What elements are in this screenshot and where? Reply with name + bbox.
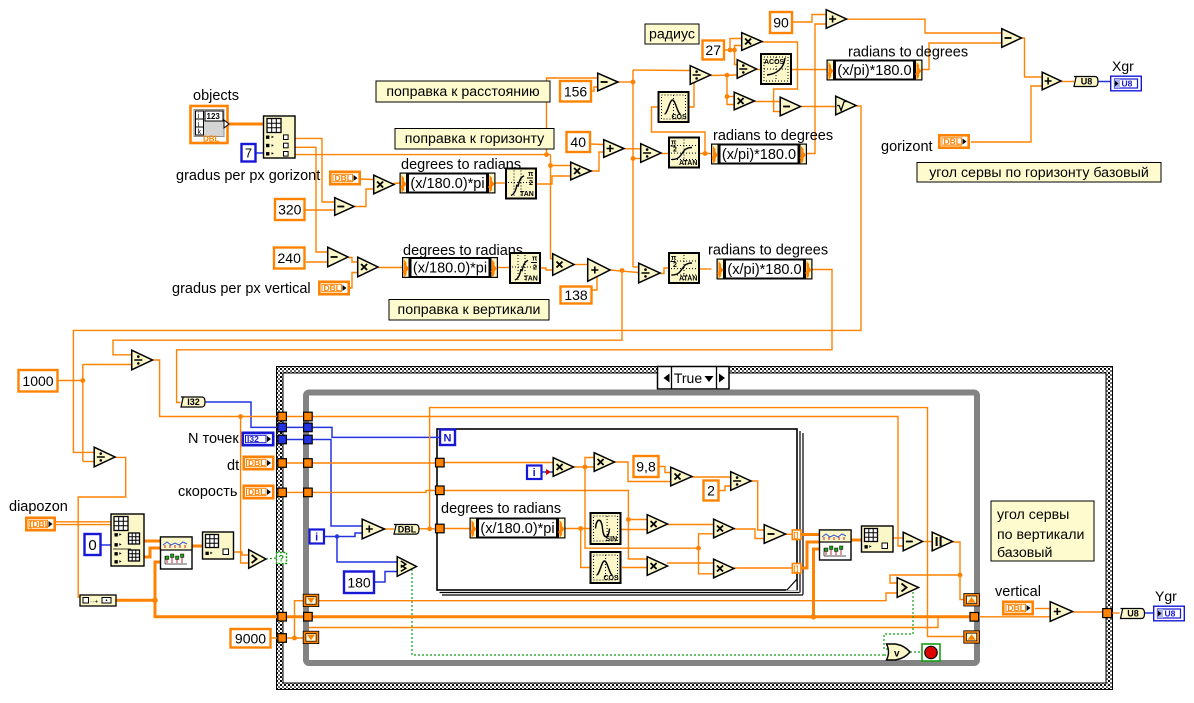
tunnel case dt xyxy=(278,459,287,468)
wire objects to index array xyxy=(228,123,263,126)
junction formula5 out xyxy=(578,526,583,531)
svg-text:ACOS: ACOS xyxy=(764,59,785,66)
wire 27 out xyxy=(725,49,735,51)
wire add2 to subtract3 xyxy=(846,19,1001,33)
wire DBL vertical to multiply-v xyxy=(349,273,357,289)
wire ATAN2 to formula2 xyxy=(700,268,712,270)
wire speed to multiply4 xyxy=(628,520,646,560)
svg-text:‣: ‣ xyxy=(271,143,275,150)
add vertical xyxy=(1050,602,1072,622)
constant 7 xyxy=(242,144,256,162)
wire 156 to subtract xyxy=(592,87,597,91)
wire divide-atan2 to ATAN2 xyxy=(660,268,668,274)
add 40 xyxy=(604,140,624,158)
wire t to multiply5 xyxy=(699,534,713,548)
indicator Ygr xyxy=(1154,606,1185,621)
svg-text:2: 2 xyxy=(707,483,715,499)
junction divide1 out xyxy=(238,414,243,419)
wire shiftreg1 out xyxy=(319,593,897,601)
multiply V xyxy=(358,257,378,277)
wire angle to shiftreg up2 xyxy=(430,408,964,637)
wire abs out xyxy=(952,542,964,600)
wire divide1 to case tunnel xyxy=(152,360,278,417)
wire multiply-d2 to add138 xyxy=(574,264,587,266)
TAN node 2 xyxy=(510,253,540,283)
wire formula2 out wireC xyxy=(177,270,832,403)
wire g-mult to divide-half xyxy=(692,476,731,478)
tunnel case N xyxy=(278,423,287,432)
wire multiply4 to multiply6 xyxy=(667,562,713,564)
wire 1000 to divide1 xyxy=(83,364,131,366)
wire diapozon array b xyxy=(56,524,111,526)
constant 2 xyxy=(704,481,719,501)
multiply 1 vt xyxy=(553,458,573,477)
svg-text:gradus per px vertical: gradus per px vertical xyxy=(172,281,311,297)
wire atan1 to cos-top xyxy=(652,107,706,154)
svg-text:U8: U8 xyxy=(1165,609,1176,619)
svg-text:[DBL: [DBL xyxy=(30,519,50,529)
index array node B xyxy=(111,514,144,566)
wire tunnel dist inside xyxy=(311,417,903,547)
wire gorizont to add3 xyxy=(971,86,1042,142)
svg-text:■‣: ■‣ xyxy=(205,551,213,558)
subtract 156 xyxy=(598,73,618,91)
wire formula5 to COS xyxy=(581,529,590,568)
wire loop-i to gte xyxy=(337,537,397,563)
svg-text:radians to degrees: radians to degrees xyxy=(713,128,833,144)
wire 180 to gte xyxy=(375,572,397,583)
wire formula2v to TAN2 xyxy=(497,267,510,269)
junction 27 a xyxy=(728,48,733,53)
wire tunnel speed inside xyxy=(311,491,435,493)
subtract f xyxy=(764,525,785,544)
wire cos-top to divide-acos xyxy=(689,81,694,108)
svg-text:240: 240 xyxy=(278,250,302,266)
constant 90 xyxy=(770,12,792,33)
tunnel case 9000 xyxy=(278,634,287,643)
control diapozon xyxy=(26,518,54,530)
wire 9000 to case tunnel xyxy=(271,637,278,639)
junction multiply-L xyxy=(725,94,730,99)
add 3 xyxy=(1042,72,1061,90)
svg-text:27: 27 xyxy=(705,42,721,58)
wire 98 to g-mult xyxy=(660,467,671,473)
wire t to junction xyxy=(585,467,699,548)
svg-text:COS: COS xyxy=(672,114,688,121)
svg-text:π: π xyxy=(528,171,534,178)
add iteration xyxy=(362,519,384,539)
control gorizont xyxy=(939,135,968,147)
shift register left 2 xyxy=(303,631,319,643)
svg-text:■‣: ■‣ xyxy=(114,532,122,539)
constant 27 xyxy=(703,41,725,60)
comment ugol vertikal text xyxy=(997,507,1084,561)
svg-text:(x/180.0)*pi: (x/180.0)*pi xyxy=(480,521,554,537)
wire stub Npoints between borders xyxy=(286,439,304,441)
tunnel loop Npoints xyxy=(304,435,313,444)
svg-text:2: 2 xyxy=(673,147,677,154)
tunnel case Npoints xyxy=(278,435,287,444)
svg-text:по вертикали: по вертикали xyxy=(997,527,1084,543)
subtract G xyxy=(335,198,354,216)
shift register left 1 xyxy=(303,594,319,606)
wire 27 to multiply-sq top xyxy=(730,39,741,51)
for loop frame xyxy=(437,429,803,595)
wire DBL conv out xyxy=(419,528,435,530)
junction 9000 inside xyxy=(292,636,297,641)
svg-text:I32: I32 xyxy=(247,434,259,444)
constant 40 xyxy=(567,132,591,152)
wire add3 to U8 xyxy=(1061,81,1075,83)
wire ACOS to formula4 xyxy=(792,69,828,71)
comment popravka rasstoyanie xyxy=(376,81,550,102)
svg-text:■‣: ■‣ xyxy=(114,551,122,558)
wire DBL gorizont to multiply-g xyxy=(360,178,373,181)
case selector label True xyxy=(658,367,730,390)
svg-text:π: π xyxy=(532,256,538,263)
wire formula4 to subtract3 xyxy=(922,43,1002,70)
wire subtract-v to multiply-v xyxy=(348,258,357,263)
multiply 98 xyxy=(671,467,692,486)
svg-text:‣: ‣ xyxy=(271,151,275,158)
I32 conversion xyxy=(181,397,205,407)
wire gte out green xyxy=(412,569,884,655)
wire sqrt out wireA xyxy=(73,106,861,452)
svg-text:ATAN: ATAN xyxy=(679,276,697,283)
wire add138 to divide-atan2 xyxy=(610,270,638,273)
divide 2 left xyxy=(94,447,115,467)
wire stub speed between borders xyxy=(286,491,304,493)
wire subtract-r to abs xyxy=(922,541,932,543)
wire divide-atan1 to ATAN1 xyxy=(661,153,669,155)
junction 1000 xyxy=(80,378,85,383)
indicator Xgr xyxy=(1111,76,1142,91)
wire 0 to index array B xyxy=(101,544,112,546)
multiply L xyxy=(734,92,754,110)
control dt xyxy=(244,457,273,469)
svg-text:diapozon: diapozon xyxy=(9,499,68,515)
wire case tunnel to U8v xyxy=(1111,612,1120,614)
svg-text:156: 156 xyxy=(564,83,588,99)
wire distance drop to multiply-d2 xyxy=(551,166,553,259)
svg-text:(x/pi)*180.0: (x/pi)*180.0 xyxy=(722,147,796,163)
build array node 2 xyxy=(862,526,894,552)
wire subtract156 out to x633 xyxy=(618,81,633,83)
wire tunnel1 to builder xyxy=(801,533,820,536)
COS node top xyxy=(659,92,689,122)
subtract r xyxy=(903,532,922,551)
TAN node 1 xyxy=(506,169,536,199)
svg-text:vertical: vertical xyxy=(995,584,1041,600)
divide half xyxy=(731,472,751,491)
junction t wire xyxy=(696,546,701,551)
wire index row2 to horizontal subtract xyxy=(295,147,327,252)
formula radians to degrees 1 xyxy=(712,144,807,164)
svg-text:■‣: ■‣ xyxy=(114,559,122,566)
ACOS node xyxy=(761,54,791,84)
svg-text:DBL: DBL xyxy=(248,458,265,468)
junction loop-i xyxy=(335,534,339,538)
wire green to or gate xyxy=(884,654,888,656)
svg-text:138: 138 xyxy=(564,287,588,303)
wire multiply-d to add40 xyxy=(590,152,603,171)
wire speed inside forloop xyxy=(444,491,647,520)
wire I32 conv to case tunnel xyxy=(205,402,278,427)
junction 27 b xyxy=(732,48,737,53)
constant 138 xyxy=(561,287,592,304)
svg-text:[]: [] xyxy=(794,533,799,540)
svg-text:‣: ‣ xyxy=(271,135,275,142)
junction distance riser xyxy=(548,163,553,168)
wire stub array between borders xyxy=(284,615,311,618)
svg-text:i: i xyxy=(533,467,536,479)
shift register right 1 xyxy=(964,594,980,606)
svg-text:k: k xyxy=(198,129,202,136)
svg-text:радиус: радиус xyxy=(649,27,695,43)
wire compare-r green xyxy=(884,592,913,649)
svg-text:TAN: TAN xyxy=(520,191,534,198)
wire 1000 to divide2l xyxy=(83,461,94,463)
svg-text:■‣: ■‣ xyxy=(864,544,872,551)
wire waveform icon to build array xyxy=(192,545,203,548)
svg-text:[]: [] xyxy=(794,566,799,573)
junction abs out xyxy=(958,573,963,578)
junction x633 top xyxy=(631,80,636,85)
case selector terminal xyxy=(277,553,287,564)
svg-text:9000: 9000 xyxy=(235,630,266,646)
wire x633 to divide-acos xyxy=(633,69,690,72)
svg-text:degrees to radians: degrees to radians xyxy=(403,243,523,259)
comment ugol gorizont xyxy=(917,163,1161,183)
wire buildarray2 to subtract-r xyxy=(893,537,903,539)
tunnel loop array xyxy=(304,612,313,621)
tunnel loop dt xyxy=(304,459,313,468)
wire dt to multiply1 xyxy=(444,462,553,464)
svg-text:Ygr: Ygr xyxy=(1155,588,1177,604)
svg-text:··+: ··+ xyxy=(90,599,98,606)
constant 320 xyxy=(275,199,305,220)
subtract V xyxy=(328,247,348,267)
wire 7 to index array xyxy=(257,152,265,154)
svg-text:базовый: базовый xyxy=(997,545,1052,561)
constant 0 xyxy=(85,534,101,555)
svg-text:SIN: SIN xyxy=(606,536,618,543)
wire 90 to add2 xyxy=(793,15,826,23)
junction DBL conv out xyxy=(427,526,432,531)
wire subtract5 to sqrt xyxy=(799,106,835,108)
svg-text:поправка к горизонту: поправка к горизонту xyxy=(405,131,545,147)
control vertical xyxy=(1003,602,1032,614)
formula radians to degrees 2 xyxy=(717,259,812,279)
svg-text:(x/180.0)*pi: (x/180.0)*pi xyxy=(413,261,487,277)
svg-text:π: π xyxy=(671,140,677,147)
wire 2 to divide-half xyxy=(720,486,731,491)
wire compare to case selector xyxy=(266,558,277,559)
junction distance row xyxy=(544,152,549,157)
wire subtract-g to multiply-g xyxy=(353,189,373,207)
tunnel loop N xyxy=(304,423,313,432)
svg-text:N: N xyxy=(444,433,452,445)
wire add-i to DBL conv xyxy=(385,528,395,530)
wire multiply2 to g-mult xyxy=(615,462,671,482)
wire U8 to Xgr xyxy=(1095,81,1111,83)
add 2 xyxy=(826,10,846,29)
svg-text:123: 123 xyxy=(207,112,221,121)
svg-text:180: 180 xyxy=(347,574,371,590)
constant 98 xyxy=(634,456,659,477)
waveform build icon node xyxy=(161,537,193,569)
control gradus per px gorizont xyxy=(330,172,359,184)
junction concat xyxy=(152,598,158,604)
svg-text:v: v xyxy=(894,649,900,660)
wire concat out xyxy=(116,599,156,602)
svg-text:7: 7 xyxy=(245,145,252,160)
svg-text:■‣: ■‣ xyxy=(114,542,122,549)
wire 320 to subtract xyxy=(305,209,334,211)
wire ATAN1 to formula3 xyxy=(700,153,712,155)
wire abs to compare-r xyxy=(890,575,960,583)
svg-text:objects: objects xyxy=(193,88,239,104)
ATAN node 1 xyxy=(669,138,699,168)
wire TAN1 to multiply-d xyxy=(537,176,570,184)
wire multiply-sq to subtract5 xyxy=(762,42,798,112)
U8 conversion Y xyxy=(1121,609,1145,619)
junction multiply1 out xyxy=(583,465,588,470)
waveform build node 2 xyxy=(820,530,852,560)
svg-text:40: 40 xyxy=(570,134,586,150)
svg-text:(x/180.0)*pi: (x/180.0)*pi xyxy=(410,176,484,192)
svg-text:DBL: DBL xyxy=(324,283,341,293)
comment popravka gorizont xyxy=(395,129,554,150)
wire tunnel Npoints to add-i xyxy=(311,440,362,527)
tunnel loop dist xyxy=(304,412,313,421)
wire multiply6 to tunnel xyxy=(733,567,792,569)
while loop border xyxy=(306,393,977,664)
svg-text:U8: U8 xyxy=(1127,609,1139,619)
wire tunnel dt inside xyxy=(311,462,435,464)
divide atan1 xyxy=(641,144,661,163)
wire formula1 to TAN1 xyxy=(494,182,506,184)
wire 9000 to shiftreg1 xyxy=(295,601,304,638)
svg-text:DBL: DBL xyxy=(944,137,961,147)
i-for red coercion xyxy=(546,469,551,475)
svg-text:degrees to radians: degrees to radians xyxy=(441,501,561,517)
forloop index tunnel 1 xyxy=(792,530,801,540)
concat array node xyxy=(80,595,116,606)
constant 180 xyxy=(344,572,374,594)
wire x633 to divide-atan2 xyxy=(633,266,638,268)
compare greater left xyxy=(249,550,266,569)
wire index row3 distance xyxy=(295,154,551,156)
tunnel case out Ygr xyxy=(1103,609,1112,618)
comment radius xyxy=(645,24,699,44)
control N tochek xyxy=(243,433,273,445)
svg-text:radians to degrees: radians to degrees xyxy=(708,243,828,259)
control gradus per px vertical xyxy=(319,282,348,294)
multiply 6 xyxy=(714,559,734,578)
svg-text:9,8: 9,8 xyxy=(636,459,656,475)
svg-text:угол сервы: угол сервы xyxy=(997,507,1069,523)
SIN node xyxy=(591,513,621,544)
ATAN node 2 xyxy=(669,253,699,283)
junction speed xyxy=(626,517,631,522)
wire stub dist between borders xyxy=(286,416,304,418)
wire distance up to 156 subtract xyxy=(547,78,598,155)
wire 27 to divide2 xyxy=(735,50,737,65)
formula degrees to radians 2 xyxy=(403,258,498,278)
subtract 3 xyxy=(1002,29,1022,48)
wire array to plus-v xyxy=(979,616,1050,618)
svg-text:dt: dt xyxy=(227,458,239,474)
sqrt node xyxy=(836,96,856,115)
wire 1000 riser xyxy=(82,365,84,462)
svg-text:gradus per px gorizont: gradus per px gorizont xyxy=(176,168,320,184)
multiply D xyxy=(571,162,591,180)
multiply D2 xyxy=(553,254,574,276)
wire tunnel f3 to formula5 xyxy=(444,528,471,530)
wire multiply-v to formula2v xyxy=(378,267,402,269)
tunnel case array xyxy=(278,612,287,621)
wire formula5 to SIN xyxy=(566,528,590,530)
wire 138 to add138 xyxy=(587,274,597,291)
svg-text:COS: COS xyxy=(604,575,620,582)
tunnel forloop dt xyxy=(436,458,445,467)
wire concat to case tunnel thick xyxy=(155,600,278,617)
svg-text:Xgr: Xgr xyxy=(1112,58,1134,74)
wire divide1 branch to compare xyxy=(241,417,248,564)
wire shift array to builder xyxy=(814,549,820,617)
svg-text:(x/pi)*180.0: (x/pi)*180.0 xyxy=(727,262,801,278)
COS node low xyxy=(591,552,621,583)
svg-text:radians to degrees: radians to degrees xyxy=(848,45,968,61)
wire multiply5 to subtract-f xyxy=(733,529,763,539)
formula radians to degrees 3 xyxy=(827,60,922,80)
wire stub dt between borders xyxy=(286,462,304,464)
wire 27 to multiply-sq bottom xyxy=(735,46,742,51)
svg-text:1000: 1000 xyxy=(22,373,53,389)
divide atan2 xyxy=(639,263,660,283)
wire divide-half to subtract-f xyxy=(751,481,764,530)
wire stub N between borders xyxy=(286,426,304,428)
svg-text:U8: U8 xyxy=(1122,79,1133,89)
divide 2 acos xyxy=(737,60,756,79)
wire distance to multiply-d xyxy=(551,155,571,166)
svg-text:DBL: DBL xyxy=(1008,603,1025,613)
wire subtract-f to tunnel xyxy=(785,533,793,535)
multiply 3 xyxy=(647,515,667,534)
U8 conversion X xyxy=(1074,77,1098,87)
divide acos xyxy=(690,66,710,85)
wire multiply3 to multiply5 xyxy=(667,524,713,526)
wire loop-i out xyxy=(324,533,362,537)
junction shift array xyxy=(811,614,817,620)
svg-text:DBL: DBL xyxy=(335,173,352,183)
forloop index tunnel 2 xyxy=(792,564,801,574)
svg-text:U8: U8 xyxy=(1081,77,1093,87)
loop iteration terminal i xyxy=(310,530,325,544)
DBL conversion xyxy=(394,525,419,535)
wire or to stop xyxy=(910,651,922,653)
compare gte xyxy=(397,557,416,577)
svg-text:I32: I32 xyxy=(187,397,200,407)
build array node B xyxy=(203,532,234,559)
svg-text:поправка к вертикали: поправка к вертикали xyxy=(398,302,541,318)
control skorost xyxy=(244,486,273,498)
forloop N terminal xyxy=(440,430,455,446)
shift register right 2 xyxy=(964,631,980,643)
svg-text:2: 2 xyxy=(529,180,533,187)
wire tunnel N to forloop N xyxy=(311,427,440,437)
